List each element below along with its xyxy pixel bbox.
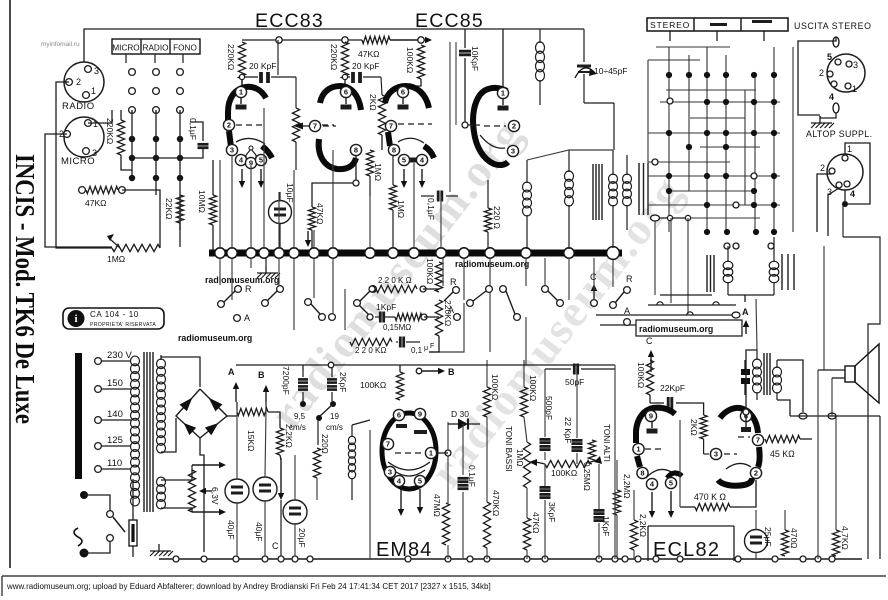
wire ecl2 420 <box>679 420 681 507</box>
arrow C down <box>272 458 284 556</box>
wire 220Ka down <box>241 79 243 86</box>
wire heater bot <box>161 508 192 512</box>
resistor 100K tt <box>360 372 404 400</box>
junction 7200 dot <box>300 401 306 407</box>
label EM84 <box>376 539 432 561</box>
tube ECC85 triode 2 <box>473 87 520 165</box>
diode D30 <box>448 409 480 430</box>
wire 47K loop <box>312 156 356 207</box>
svg-text:10KpF: 10KpF <box>470 46 480 71</box>
svg-text:CA 104 - 10: CA 104 - 10 <box>90 310 139 319</box>
matrix contact dots <box>666 72 777 208</box>
wire rail arrow <box>390 37 432 43</box>
svg-text:2: 2 <box>512 122 516 131</box>
resistor 220K sw2 <box>350 338 392 355</box>
svg-text:40μF: 40μF <box>226 520 236 540</box>
svg-text:9,5: 9,5 <box>294 412 306 421</box>
capacitor 3KpF <box>540 487 558 522</box>
wire drop 279 <box>278 192 280 249</box>
svg-text:3: 3 <box>714 450 718 459</box>
svg-text:2,2KΩ: 2,2KΩ <box>638 514 647 537</box>
wire anode rail <box>242 39 362 41</box>
svg-text:MICRO: MICRO <box>112 44 139 53</box>
svg-text:A: A <box>624 306 630 316</box>
resistor 100K tc2 <box>520 375 538 417</box>
bottom rail junctions <box>173 556 835 562</box>
svg-text:A: A <box>448 305 454 315</box>
plug switch <box>107 511 125 542</box>
svg-text:2: 2 <box>754 469 758 478</box>
wire C down <box>650 366 652 372</box>
junction em84 <box>445 450 451 456</box>
trimmer 10-45pF <box>575 29 628 103</box>
wire micro pin1 <box>88 110 112 123</box>
selector box MICRO RADIO FONO <box>112 39 200 54</box>
wire 10M down <box>212 225 214 250</box>
wire 22m d <box>616 515 618 559</box>
svg-text:0,25MΩ: 0,25MΩ <box>582 462 591 491</box>
svg-text:USCITA STEREO: USCITA STEREO <box>794 21 872 31</box>
resistor 220K a <box>226 42 246 79</box>
svg-text:220KΩ: 220KΩ <box>105 118 115 144</box>
watermark text radiomuseum.org mid <box>178 333 252 343</box>
connector USCITA STEREO <box>819 37 865 113</box>
svg-text:470KΩ: 470KΩ <box>491 490 501 516</box>
svg-text:A: A <box>244 313 250 323</box>
watermark diagonal radiomuseum.org 2 <box>420 166 693 496</box>
terms 670 <box>667 215 690 220</box>
svg-text:470 K Ω: 470 K Ω <box>694 492 726 502</box>
svg-text:47KΩ: 47KΩ <box>85 198 106 208</box>
svg-text:7: 7 <box>386 440 390 449</box>
wire uscita left <box>792 47 794 232</box>
resistor 100K mid v <box>425 258 443 292</box>
matrix vertical wires <box>648 47 774 232</box>
transformer heater coil <box>157 477 166 509</box>
capacitor 20uF <box>283 500 307 548</box>
wire band2 <box>648 304 736 306</box>
junction rail 331 <box>328 362 334 368</box>
svg-text:220Ω: 220Ω <box>320 434 329 454</box>
svg-text:1: 1 <box>501 89 505 98</box>
svg-text:0,1μF: 0,1μF <box>188 118 198 140</box>
svg-text:2: 2 <box>76 77 81 87</box>
svg-text:7: 7 <box>756 436 760 445</box>
resistor 2,2M <box>613 474 631 515</box>
wire bottom rail <box>159 558 862 560</box>
svg-text:8: 8 <box>354 146 358 155</box>
wire drop 251 <box>250 166 252 249</box>
svg-text:22KpF: 22KpF <box>660 383 685 393</box>
plug glyph <box>74 528 82 546</box>
coil out primary <box>753 350 762 400</box>
label ALTOP SUPPL <box>806 129 872 139</box>
capacitor 1KpF sw <box>367 302 396 323</box>
svg-text:1MΩ: 1MΩ <box>373 163 383 181</box>
resistor 2,2K ps <box>276 424 294 455</box>
junction out <box>743 409 749 415</box>
resistor 4,7K <box>832 526 850 556</box>
wire spk l <box>817 370 819 559</box>
wire 3kpf <box>544 464 546 486</box>
switch s6 <box>467 286 493 307</box>
wire drop 414 <box>413 163 415 249</box>
matrix open contacts <box>652 98 757 208</box>
capacitor out <box>741 360 750 395</box>
watermark box radiomuseum.org <box>636 320 742 336</box>
wire top drop tube4 <box>502 29 504 87</box>
wire band3 <box>596 314 736 316</box>
contact grid open circles <box>129 69 184 114</box>
wire 500p <box>544 369 546 437</box>
resistor 2,2K tc <box>630 514 647 550</box>
wire 470k l <box>680 506 695 508</box>
svg-text:5: 5 <box>669 479 673 488</box>
svg-text:3: 3 <box>230 146 234 155</box>
wire 655 h <box>660 217 688 219</box>
svg-text:8: 8 <box>640 469 644 478</box>
detector row dots <box>704 229 777 235</box>
wire B ps <box>265 402 267 410</box>
connector MICRO <box>59 117 104 167</box>
resistor 47M <box>432 494 450 545</box>
switch s4 <box>329 300 369 321</box>
wire tc2 d <box>526 488 528 518</box>
junction band <box>732 312 741 328</box>
wire ecl grid2 <box>690 403 704 415</box>
resistor 220ohm em <box>313 434 329 500</box>
svg-text:1KpF: 1KpF <box>601 516 611 536</box>
capacitor 01uF sw <box>396 337 434 356</box>
svg-text:100KΩ: 100KΩ <box>551 468 577 478</box>
svg-text:μ: μ <box>424 345 428 352</box>
wire sw mid <box>423 288 439 290</box>
wire 20 <box>294 455 296 500</box>
pin3 ecl <box>704 439 737 460</box>
wire drop 441 <box>440 196 442 249</box>
svg-text:3: 3 <box>853 60 858 70</box>
svg-text:1: 1 <box>852 84 857 94</box>
core IF1 <box>593 164 602 220</box>
svg-text:2: 2 <box>820 163 825 173</box>
wire radio pin2 left <box>56 82 69 190</box>
wire drop 264 <box>263 108 265 249</box>
svg-text:6: 6 <box>401 88 405 97</box>
capacitor 01uF em <box>458 465 478 489</box>
resistor 100K top <box>405 45 425 79</box>
wire drop 526b <box>525 317 527 365</box>
svg-text:RADIO: RADIO <box>143 44 169 53</box>
svg-text:100KΩ: 100KΩ <box>528 375 538 401</box>
capacitor 22KpF ecl <box>650 383 690 409</box>
wire col3 down <box>179 110 181 230</box>
bridge rectifier <box>176 389 227 438</box>
resistor 47K cathode <box>308 203 325 230</box>
wire spk l2 <box>831 378 833 416</box>
switch drop wires <box>220 258 345 330</box>
wire 22k tc <box>633 490 635 520</box>
svg-text:ECC83: ECC83 <box>255 10 324 32</box>
wire em84 r2 <box>447 545 449 559</box>
heater arrows EM84 <box>398 489 423 516</box>
svg-text:1MΩ: 1MΩ <box>107 254 125 264</box>
wire bridge down <box>200 438 204 552</box>
wire sw mid2 <box>424 316 439 318</box>
wire em84 box <box>369 430 371 559</box>
wire 1kpf <box>598 464 600 509</box>
wire tone rail2 <box>614 365 616 559</box>
wire 1kpf d <box>598 523 600 559</box>
tap 110 <box>95 458 131 472</box>
wire 47K to 1M pot <box>122 190 160 248</box>
switch R right <box>444 277 459 301</box>
wire 100K down <box>403 79 421 86</box>
switch C mid <box>590 272 597 306</box>
svg-text:radiomuseum.org: radiomuseum.org <box>455 259 529 269</box>
capacitor 0,1uF input <box>188 118 209 148</box>
resistor 2K ecl <box>689 415 707 439</box>
wire uscita top <box>798 37 836 115</box>
svg-text:47KΩ: 47KΩ <box>315 203 325 224</box>
wire out to plate <box>746 350 757 412</box>
label C arrow mid <box>646 336 654 366</box>
wire 2,2K down <box>280 455 281 460</box>
svg-text:2KΩ: 2KΩ <box>368 94 378 111</box>
capacitor 50pF <box>565 364 584 388</box>
junction ell 655 <box>651 215 660 221</box>
svg-text:B: B <box>258 370 265 380</box>
mains bar <box>75 353 82 479</box>
label 9,5 cmps <box>289 412 306 432</box>
wire row link <box>132 157 190 159</box>
wire tt top <box>236 364 430 366</box>
capacitor 500pF <box>540 396 555 450</box>
switch R left <box>218 284 252 307</box>
capacitor 2KpF tt <box>327 370 348 401</box>
speaker <box>845 344 879 403</box>
wire 10KpF <box>464 29 466 48</box>
tube EM84 <box>382 408 437 489</box>
wire 671 v <box>670 218 672 303</box>
wire ecl grid <box>649 395 651 403</box>
wire det A <box>744 295 746 302</box>
label ECC85 <box>415 10 484 32</box>
junction spk <box>799 413 836 419</box>
svg-text:D 30: D 30 <box>451 409 469 419</box>
wire anode1 up <box>241 77 243 86</box>
wire altop right <box>845 143 870 204</box>
tube ECC85 triode 1 <box>385 86 434 166</box>
box ECL82 <box>648 526 734 561</box>
wire micro pin2 left <box>45 134 112 247</box>
wire drop 370 <box>369 196 371 249</box>
capacitor 10uF <box>269 183 296 248</box>
wire 25uF d <box>755 552 757 559</box>
wire drop 314 <box>313 230 315 249</box>
svg-text:110: 110 <box>107 458 122 469</box>
resistor 470ohm <box>781 528 799 556</box>
svg-text:ECC85: ECC85 <box>415 10 484 32</box>
arrow heater 1 <box>192 462 226 470</box>
label B arrow <box>258 370 269 402</box>
wire bridge right <box>227 415 237 417</box>
resistor grid vertical <box>292 108 299 170</box>
wire drop 464b <box>429 303 464 352</box>
wire tc1 d <box>486 548 488 559</box>
svg-text:5: 5 <box>827 52 832 62</box>
wire 655 v <box>654 221 656 295</box>
capacitor 25uF <box>745 527 774 553</box>
watermark text radiomuseum.org upper <box>205 275 279 285</box>
wire 3kpf d <box>544 500 546 559</box>
wire 220K bottom <box>121 155 132 170</box>
junction 10KpF <box>462 122 468 128</box>
wire drop 220 <box>219 160 221 249</box>
wire 40b d <box>264 501 266 559</box>
svg-text:MICRO: MICRO <box>61 156 95 167</box>
junction 2KpF dot <box>316 401 336 445</box>
logo box CA 104-10 <box>63 308 164 329</box>
wire 20 d <box>294 524 296 559</box>
svg-text:9: 9 <box>649 412 653 421</box>
wire em84 r <box>447 422 449 503</box>
wire sec to spk <box>777 360 803 412</box>
svg-text:100KΩ: 100KΩ <box>360 380 386 390</box>
resistor 47K tc <box>523 512 541 550</box>
wire tt 400 <box>399 365 401 372</box>
switch drop wires right <box>443 258 613 300</box>
wire 15K to 22K <box>268 412 280 428</box>
resistor 45K <box>765 435 812 459</box>
svg-text:47KΩ: 47KΩ <box>531 512 541 533</box>
svg-text:220KΩ: 220KΩ <box>226 44 236 70</box>
resistor 2K grid <box>368 94 386 150</box>
wire tc2 dd <box>526 550 528 559</box>
svg-text:45 KΩ: 45 KΩ <box>770 449 795 459</box>
terminal A mid2 <box>624 306 631 325</box>
tube ECC83 triode 2 <box>319 86 362 169</box>
wire det to out <box>756 299 757 350</box>
svg-text:100KΩ: 100KΩ <box>490 374 500 400</box>
watermark diagonal radiomuseum.org 1 <box>260 108 533 438</box>
wire 22K down <box>179 223 181 247</box>
svg-text:ECL82: ECL82 <box>653 539 720 561</box>
svg-text:INCIS - Mod. TK6 De Luxe: INCIS - Mod. TK6 De Luxe <box>10 154 40 424</box>
svg-text:TONI ALTI: TONI ALTI <box>602 424 611 462</box>
wire drop 490b <box>489 289 491 352</box>
label A arrow <box>228 367 239 402</box>
coil det L <box>723 246 733 295</box>
svg-text:STEREO: STEREO <box>650 20 690 30</box>
wire 25uF <box>755 510 757 530</box>
svg-text:4: 4 <box>850 189 855 199</box>
svg-text:R: R <box>450 277 457 287</box>
wire 220K leads <box>120 110 122 120</box>
svg-text:47MΩ: 47MΩ <box>432 494 442 517</box>
svg-text:1: 1 <box>847 144 852 154</box>
svg-text:6: 6 <box>344 88 348 97</box>
svg-text:220KΩ: 220KΩ <box>329 44 339 70</box>
wire 10KpF down <box>465 58 480 125</box>
heater arrows ecl t <box>649 491 674 518</box>
selector stubs <box>126 54 183 63</box>
resistor 15K <box>237 408 268 451</box>
pot TONI BASSI <box>504 426 545 488</box>
resistor 47K top <box>358 36 390 59</box>
wire pot down <box>56 190 112 248</box>
svg-text:19: 19 <box>330 412 339 421</box>
capacitor 20KpF a <box>239 40 296 108</box>
fuse <box>129 505 137 557</box>
wire 22m <box>616 460 618 490</box>
svg-text:1: 1 <box>91 86 96 96</box>
wire spk rail <box>790 415 880 417</box>
svg-text:FONO: FONO <box>173 44 197 53</box>
switch R mid2 <box>610 274 633 308</box>
heater arrows t3 <box>401 169 425 188</box>
wire plug <box>84 495 110 510</box>
svg-text:1KpF: 1KpF <box>376 302 396 312</box>
label 19 cmps <box>326 412 343 432</box>
resistor 22K vertical <box>164 195 184 223</box>
svg-text:0,1μF: 0,1μF <box>467 465 477 487</box>
wire 688 v <box>687 218 689 314</box>
capacitor 1KpF tc <box>594 510 612 536</box>
svg-text:0,1μF: 0,1μF <box>426 198 436 220</box>
transformer secondary coil <box>157 359 166 453</box>
svg-text:F: F <box>430 343 434 350</box>
wire 22kpf <box>576 369 578 438</box>
switch s8 <box>542 286 564 307</box>
svg-text:7: 7 <box>313 122 317 131</box>
capacitor 40uF a <box>225 479 249 540</box>
resistor 220K sw <box>369 276 426 293</box>
wire 40a <box>236 410 238 479</box>
svg-text:A: A <box>228 367 235 377</box>
svg-text:2 2 0 K Ω: 2 2 0 K Ω <box>378 276 412 285</box>
grey text myinfomail.ru <box>41 41 80 48</box>
ground power <box>150 544 173 556</box>
svg-text:22 KpF: 22 KpF <box>563 417 572 443</box>
svg-text:10MΩ: 10MΩ <box>197 190 207 213</box>
capacitor 10KpF <box>459 46 480 71</box>
stereo switch box <box>647 18 788 31</box>
svg-text:C: C <box>646 336 653 346</box>
wire sec top to bridge <box>161 357 200 387</box>
rail junctions <box>276 37 424 43</box>
resistor 220 ohm <box>484 180 502 249</box>
wire pin1 <box>437 452 448 454</box>
wire right v2 <box>823 246 825 370</box>
label USCITA STEREO <box>794 21 872 31</box>
svg-text:1: 1 <box>239 88 243 97</box>
svg-text:B: B <box>448 367 455 377</box>
arrow onto bus <box>305 231 311 247</box>
potentiometer 1M <box>107 234 160 264</box>
svg-text:100KΩ: 100KΩ <box>425 258 435 284</box>
tap 125 <box>95 435 131 449</box>
wire spk conn1 <box>818 369 845 371</box>
svg-text:PROPRIETA' RISERVATA: PROPRIETA' RISERVATA <box>90 322 156 328</box>
wire sec top <box>160 355 162 360</box>
wire top feed <box>84 29 584 62</box>
svg-text:radiomuseum.org: radiomuseum.org <box>178 333 252 343</box>
label ECL82 <box>653 539 720 561</box>
wire to cap01 <box>190 149 203 158</box>
bus junction circles <box>215 247 620 260</box>
coil IF1a <box>523 160 532 249</box>
svg-text:7200pF: 7200pF <box>281 366 291 395</box>
